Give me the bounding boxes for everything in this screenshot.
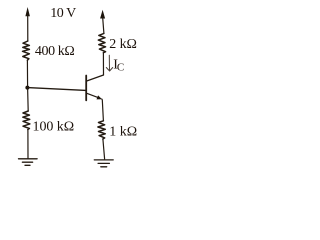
wire collector vertical [102, 53, 104, 75]
resistor R4 1 kΩ [98, 121, 105, 139]
wire right to ground [103, 139, 105, 159]
ground right [94, 160, 113, 167]
current arrow Ic [106, 55, 112, 71]
svg-text:C: C [117, 62, 124, 74]
supply arrow left (10 V) [25, 7, 30, 16]
svg-text:400 kΩ: 400 kΩ [35, 44, 75, 59]
svg-text:10 V: 10 V [50, 6, 76, 21]
resistor R2 100 kΩ [23, 111, 30, 130]
supply arrow right [100, 10, 105, 19]
node A junction dot [25, 86, 29, 90]
resistor R1 400 kΩ [23, 41, 30, 60]
wire left to ground [27, 130, 29, 159]
wire collector diagonal [87, 75, 104, 81]
transistor Q1 base bar [85, 76, 87, 101]
transistor Q1 emitter with arrow [87, 93, 100, 98]
wire left rail mid [26, 60, 28, 87]
wire emitter to resistor [102, 99, 104, 121]
wire right rail top [103, 18, 104, 34]
resistor R3 2 kΩ [98, 33, 105, 52]
wire base [27, 88, 86, 91]
ground left [19, 159, 38, 166]
svg-text:1 kΩ: 1 kΩ [109, 124, 137, 139]
wire left rail top [27, 16, 29, 42]
svg-text:100 kΩ: 100 kΩ [33, 119, 75, 134]
svg-text:2 kΩ: 2 kΩ [109, 37, 137, 52]
wire left rail lower [27, 88, 30, 111]
